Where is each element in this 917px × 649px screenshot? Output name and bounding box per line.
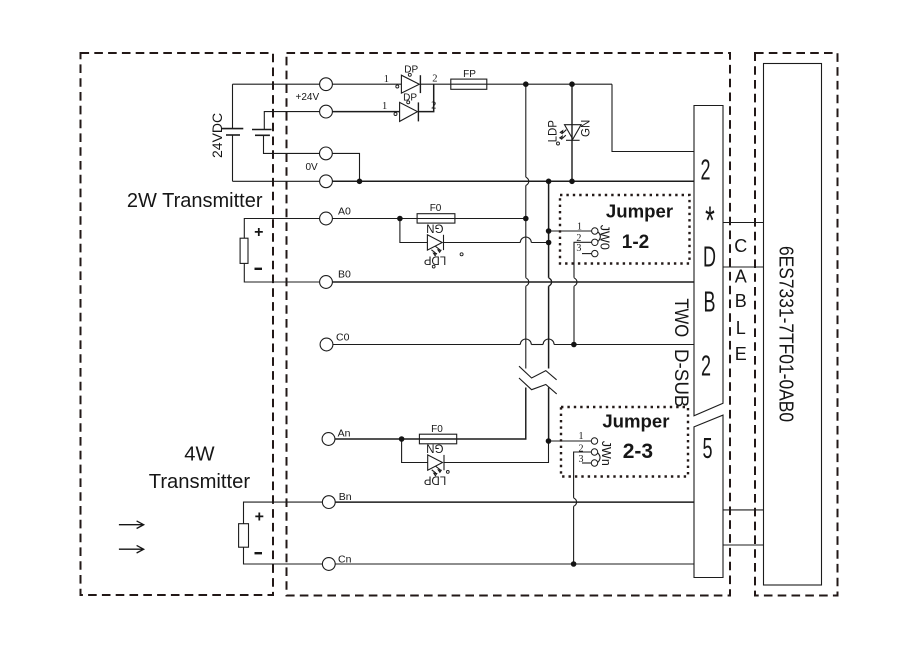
svg-text:2: 2 <box>700 154 710 186</box>
wire terminal2 to diode DP2 <box>332 111 399 113</box>
vertical bus v1 (FP feed) <box>525 84 527 177</box>
wire terminal3 jog to 0V <box>332 153 359 181</box>
svg-text:1: 1 <box>382 101 387 112</box>
battery right cell lead top <box>264 112 319 130</box>
svg-text:B: B <box>735 291 747 311</box>
junction dot JW0 pin1 at v2 <box>546 228 552 234</box>
wire DP2 cathode riser <box>418 84 433 111</box>
hop of v2 over B0 wire <box>549 278 552 286</box>
field-side dashed enclosure (transmitters box) <box>81 53 274 595</box>
pin marker LED GNn channel n <box>446 471 449 474</box>
wire 0V bottom <box>233 180 320 182</box>
jumper JW0 pin1 circle <box>592 228 598 234</box>
4W arrow 1 <box>119 521 144 553</box>
svg-text:Transmitter: Transmitter <box>149 471 251 493</box>
svg-text:+24V: +24V <box>296 92 320 103</box>
svg-text:A: A <box>735 266 747 286</box>
vertical bus v2 (0V tie) <box>548 181 550 277</box>
terminal +24V row2 <box>320 105 333 118</box>
wire 4W transmitter plus lead <box>244 502 323 524</box>
svg-text:*: * <box>705 199 715 243</box>
module body rectangle <box>764 64 822 586</box>
svg-text:5: 5 <box>702 433 712 465</box>
power LED LDP cathode bar <box>566 139 580 141</box>
svg-text:2-3: 2-3 <box>623 440 653 463</box>
svg-text:F0: F0 <box>430 203 442 214</box>
jumper JW0 pin2 circle <box>592 239 598 245</box>
D-SUB bar upper part <box>694 106 723 416</box>
terminal 0V row3 <box>320 147 333 160</box>
battery right cell long plate <box>252 129 272 131</box>
pin marker LED LDP <box>557 142 560 145</box>
jumper JWn pin2 circle <box>591 449 597 455</box>
svg-text:L: L <box>736 318 746 338</box>
2W transmitter body <box>240 238 248 263</box>
terminal-block dashed enclosure (wiring box) <box>287 53 731 596</box>
svg-text:Bn: Bn <box>339 491 352 503</box>
fuse F0 channel0 <box>417 214 455 223</box>
LED GNn channel n cathode bar <box>443 455 445 470</box>
junction dot A0 branch <box>397 216 403 222</box>
wire 0V rail to terminal bar <box>332 180 694 182</box>
svg-text:FP: FP <box>463 69 476 80</box>
junction dot v1 top on FP wire <box>523 81 529 87</box>
LED GN channel0 cathode bar <box>443 235 445 250</box>
svg-text:Cn: Cn <box>338 554 352 566</box>
LED GN channel0 body <box>427 235 442 250</box>
junction dot LED line top on FP wire <box>569 81 575 87</box>
jumper JW0 dotted frame <box>560 195 690 264</box>
svg-text:1: 1 <box>579 431 584 442</box>
wire jumper JW0 pin1 <box>549 230 592 232</box>
break symbol zigzag lower <box>519 378 557 394</box>
svg-text:2: 2 <box>579 444 584 455</box>
battery 24VDC left cell lead top <box>232 84 234 128</box>
svg-text:GN: GN <box>426 442 443 454</box>
svg-text:LDP: LDP <box>423 253 446 265</box>
junction dot A0 at v1 <box>523 216 529 222</box>
battery left cell long plate <box>222 128 244 130</box>
svg-text:6ES7331-7TF01-0AB0: 6ES7331-7TF01-0AB0 <box>775 246 798 422</box>
wire C0 to terminal bar with hops <box>333 344 520 346</box>
wire DP1 cathode to corner via fuse FP <box>420 83 612 85</box>
LED GNn channel n arrows <box>432 466 442 475</box>
wire jumper JW0 pin2 to C0 riser <box>574 242 592 277</box>
4W transmitter body <box>239 524 249 548</box>
junction dot GN wire at v2 <box>546 240 552 246</box>
hop of v1 over 0V wire <box>526 177 529 185</box>
hop of C0 wire over v1 <box>520 339 531 345</box>
battery left cell lead bottom <box>232 135 234 181</box>
svg-text:1: 1 <box>577 221 582 232</box>
2W transmitter minus mark <box>255 268 263 270</box>
junction dot v2 on 0V wire <box>546 179 552 185</box>
svg-text:An: An <box>338 428 351 440</box>
4W arrow 2 <box>119 545 144 553</box>
terminal A0 <box>320 212 333 225</box>
svg-text:0V: 0V <box>306 162 319 173</box>
svg-text:JW0: JW0 <box>598 225 612 250</box>
cable wire lower B <box>723 544 764 546</box>
svg-text:E: E <box>735 344 747 364</box>
diode DP2 body <box>400 102 418 121</box>
wire 4W transmitter minus lead <box>244 547 323 564</box>
svg-text:+: + <box>254 224 263 241</box>
svg-text:F0: F0 <box>431 424 443 435</box>
wire jumper JWn pin2 to Cn riser <box>574 452 592 498</box>
svg-text:LDP: LDP <box>547 120 559 143</box>
cable wire upper A <box>723 222 764 224</box>
junction dot LED line on 0V wire <box>569 179 575 185</box>
hop of JW0 pin2 riser over B0 wire <box>574 278 577 286</box>
terminal C0 <box>320 338 333 351</box>
terminal Bn <box>322 496 335 509</box>
svg-text:D-SUB: D-SUB <box>670 349 691 407</box>
battery right cell short plate <box>255 134 270 136</box>
diode DP1 body <box>401 75 419 93</box>
jumper JWn dotted frame <box>561 407 688 477</box>
battery right cell lead bottom <box>264 135 320 153</box>
wire An through fuse F0n <box>335 388 526 440</box>
pin marker DP2 <box>394 113 397 116</box>
wire Cn to terminal bar <box>335 563 694 565</box>
wire +24V top <box>233 83 320 85</box>
cable wire upper B <box>723 266 764 268</box>
wire A0 branch down to LED GN <box>400 219 428 243</box>
junction dot Cn at pin2 riser <box>571 561 577 567</box>
diode DP1 cathode bar <box>419 75 421 93</box>
svg-text:2: 2 <box>432 74 437 85</box>
svg-text:LDP: LDP <box>423 473 446 485</box>
pin marker DP1 <box>396 85 399 88</box>
terminal B0 <box>320 276 333 289</box>
wire B0 to terminal bar <box>332 281 694 283</box>
fuse FP <box>451 79 487 89</box>
jumper JWn link arc pins 2-3 <box>598 453 600 463</box>
LED GNn channel n body <box>428 455 443 470</box>
pin marker LED GN channel0 <box>460 253 463 256</box>
wire A0 through fuse F0 <box>332 218 525 220</box>
hop of C0 wire over v2 <box>543 339 554 345</box>
svg-text:2: 2 <box>701 350 711 382</box>
hop of JWn pin2 riser over Bn wire <box>574 498 577 506</box>
jumper JW0 pin3 circle <box>592 250 598 256</box>
svg-text:1-2: 1-2 <box>622 232 649 253</box>
fuse F0n channel n <box>419 434 456 444</box>
power LED branch (FP to 0V) <box>571 84 573 181</box>
4W transmitter minus mark <box>255 552 263 554</box>
svg-text:A0: A0 <box>338 206 351 218</box>
power LED LDP arrows <box>560 130 567 139</box>
junction dot JWn pin1 at v2 <box>546 438 552 444</box>
svg-text:Jumper: Jumper <box>606 200 673 221</box>
svg-text:D: D <box>703 241 716 273</box>
wire LED GN cathode toward bus (hop at v1) <box>444 242 521 244</box>
D-SUB bar lower part <box>694 415 723 577</box>
wire Bn to terminal bar <box>335 501 694 503</box>
svg-text:B: B <box>704 286 716 318</box>
power LED LDP body <box>565 125 582 140</box>
svg-text:3: 3 <box>579 454 584 465</box>
svg-text:3: 3 <box>576 243 581 254</box>
svg-text:1: 1 <box>384 74 389 85</box>
wire FP output jog down to module terminal <box>612 84 694 151</box>
svg-text:C0: C0 <box>336 332 350 344</box>
svg-text:DP: DP <box>403 93 417 104</box>
cable wire lower A <box>723 509 764 511</box>
break symbol zigzag upper <box>519 366 557 380</box>
hop of GN wire over vertical bus v1 <box>520 237 531 242</box>
terminal Cn <box>322 558 335 571</box>
svg-text:GN: GN <box>581 120 593 137</box>
jumper JWn pin3 circle <box>591 460 597 466</box>
svg-text:+: + <box>255 509 264 526</box>
svg-text:C: C <box>734 236 747 256</box>
svg-text:GN: GN <box>426 222 443 234</box>
junction dot 0V jog <box>357 179 363 185</box>
battery left cell short plate <box>226 134 240 136</box>
wire jumper JWn pin1 <box>549 440 592 442</box>
wire 2W transmitter minus lead <box>244 263 319 282</box>
wire jumper JWn pin3 stub <box>582 462 591 464</box>
LED GN channel0 arrows <box>431 246 441 255</box>
wire An branch down to LED GNn <box>402 439 428 463</box>
wire 2W transmitter plus lead <box>244 219 319 239</box>
svg-text:24VDC: 24VDC <box>209 113 225 158</box>
svg-text:DP: DP <box>404 64 418 75</box>
terminal 0V row4 <box>320 175 333 188</box>
hop of v1 over B0 wire <box>526 278 529 286</box>
diode DP2 cathode bar <box>417 102 419 121</box>
svg-text:JWn: JWn <box>599 441 613 466</box>
junction dot C0 at pin2 riser <box>571 342 577 348</box>
svg-text:4W: 4W <box>184 444 214 466</box>
junction dot An branch <box>399 436 405 442</box>
svg-text:Jumper: Jumper <box>602 411 669 432</box>
svg-text:2W Transmitter: 2W Transmitter <box>127 190 263 212</box>
wire terminal1 to diode DP1 <box>332 83 401 85</box>
jumper JW0 link arc pins 1-2 <box>598 232 600 242</box>
terminal +24V row1 <box>320 78 333 91</box>
jumper JWn pin1 circle <box>591 438 597 444</box>
wire jumper JW0 pin3 stub <box>582 253 592 255</box>
svg-text:B0: B0 <box>338 269 351 281</box>
svg-text:TWO: TWO <box>670 298 691 337</box>
wire LED GNn cathode to riser <box>444 441 549 463</box>
module dashed enclosure <box>755 53 838 596</box>
terminal An <box>322 433 335 446</box>
svg-text:2: 2 <box>431 100 436 111</box>
